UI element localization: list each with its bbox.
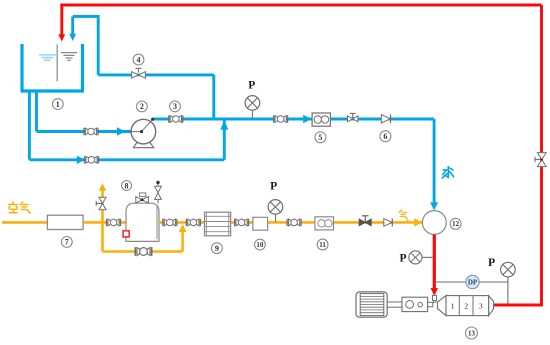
shaft [387, 302, 402, 307]
label: water text [442, 167, 453, 178]
valve V4 with T-stem [132, 68, 146, 78]
wire: branch down to bypass [101, 222, 104, 251]
arrow: up into main line [220, 121, 228, 130]
valve after component 9 [235, 219, 249, 226]
tank T1 [21, 44, 85, 91]
label 2 [137, 101, 148, 112]
separator vessel 13 [438, 296, 494, 316]
wire: air run to vessel [83, 221, 126, 224]
svg-text:9: 9 [215, 244, 219, 253]
label 6 [380, 131, 391, 142]
globe valve with stem on main line [348, 113, 358, 121]
wire: bypass top horizontal [73, 15, 99, 18]
check valve V6 [381, 114, 390, 123]
svg-text:13: 13 [468, 329, 476, 337]
wire: red mixer outlet drop [433, 234, 436, 289]
component 10 [253, 217, 268, 230]
svg-text:3: 3 [479, 302, 483, 311]
wire: pump suction horizontal [37, 130, 132, 133]
wire: pump suction vertical from tank [35, 90, 38, 132]
pressure gauge PI-1 [245, 79, 260, 118]
label 12 [450, 218, 461, 229]
valve at vessel inlet [107, 219, 121, 226]
label 9 [212, 243, 223, 254]
flow meter FM11 [315, 217, 334, 230]
arrow: blue into tank [69, 34, 76, 41]
tank divider [56, 45, 58, 82]
wire: vessel outlet run [159, 221, 422, 224]
coupling housing [402, 297, 428, 311]
label 8 [122, 181, 132, 191]
label 10 [255, 239, 266, 250]
valve before flow meter 11 [287, 219, 301, 226]
arrow: main line flow [303, 115, 311, 124]
pressure gauge PI-2 [268, 180, 283, 221]
label 4 [133, 54, 144, 65]
valve on main line [274, 115, 288, 122]
water level symbol left [39, 55, 56, 60]
valve at vessel outlet [163, 219, 177, 226]
svg-text:P: P [488, 257, 495, 269]
wire: branch down to pump discharge line [212, 75, 215, 119]
svg-text:6: 6 [383, 132, 387, 141]
valve on bypass [135, 247, 152, 256]
arrow: blue into mixer [430, 202, 438, 210]
wire: main discharge line [153, 118, 434, 121]
inlet fitting [433, 295, 437, 302]
label 5 [315, 132, 326, 143]
valve after junction [186, 219, 200, 226]
arrow: red into tank [58, 34, 65, 41]
sensor square on vessel [123, 231, 129, 237]
globe valve dark on air line [359, 216, 371, 226]
valve on pump suction [84, 128, 98, 135]
svg-text:1: 1 [56, 100, 60, 109]
pump P2 [131, 118, 156, 148]
pressure gauge PI-4 [488, 257, 515, 303]
svg-text:11: 11 [319, 241, 326, 249]
label 7 [61, 237, 72, 248]
relief valve on vessel top [155, 181, 162, 204]
wire: main line downcomer to mixer [433, 119, 436, 205]
valve V3 [169, 115, 183, 122]
pressure regulator on vessel top [136, 193, 149, 203]
label: gas text (qi) [399, 210, 408, 221]
valve on red downcomer [535, 153, 546, 167]
component 9 (laminar element) [205, 212, 231, 236]
wire: tank drain vertical [28, 90, 31, 160]
valve on drain run [85, 156, 99, 163]
water level symbol right [61, 53, 77, 61]
svg-text:1: 1 [451, 302, 455, 311]
wire: valve 4 branch horizontal [98, 73, 214, 76]
wire: air inlet run [2, 221, 48, 224]
wire: tank drain horizontal run [29, 158, 224, 161]
arrow: bypass up into line [179, 224, 187, 232]
arrow: on drain run [77, 156, 85, 164]
wire: drain riser joining main [223, 119, 226, 160]
DP transmitter [466, 275, 479, 288]
svg-text:DP: DP [468, 278, 478, 286]
svg-text:5: 5 [318, 133, 322, 142]
wire: DP impulse line [434, 281, 508, 283]
svg-text:2: 2 [140, 102, 144, 111]
svg-text:10: 10 [256, 241, 264, 249]
check valve on air line [384, 218, 393, 226]
wire: red right downcomer [540, 5, 543, 305]
pressure gauge PI-3 [399, 251, 432, 264]
component 7 (filter) [47, 215, 83, 229]
stub shaft [428, 302, 433, 306]
svg-text:12: 12 [452, 220, 460, 228]
wire: bypass vertical to valve 4 line [97, 15, 100, 75]
wire: blue drop into tank [71, 16, 74, 35]
wire: vent riser [101, 190, 104, 223]
vent valve with handle [96, 197, 106, 209]
svg-text:3: 3 [173, 102, 177, 111]
arrow: into pump [117, 127, 125, 135]
svg-text:P: P [399, 252, 406, 264]
label 3 [170, 101, 181, 112]
svg-text:2: 2 [464, 302, 468, 311]
label 11 [317, 239, 328, 250]
svg-text:4: 4 [137, 55, 141, 64]
label: air text (kong qi) [9, 202, 31, 213]
wire: bypass run [103, 250, 183, 253]
wire: red drop into tank [60, 4, 63, 36]
motor [356, 292, 387, 317]
wire: red bottom run from separator outlet [493, 303, 543, 306]
arrow: vent up [99, 183, 107, 191]
vessel 8 (buffer tank) [126, 203, 159, 241]
svg-text:P: P [270, 180, 277, 192]
wire: bypass riser [181, 226, 184, 252]
wire: red top header [60, 4, 541, 7]
arrow: air into mixer [414, 218, 422, 226]
label 13 [466, 327, 478, 339]
arrow: red into separator inlet [431, 288, 438, 296]
flow meter FM5 [312, 113, 330, 126]
label 1 [52, 99, 63, 110]
mixer M12 [422, 211, 446, 235]
svg-text:8: 8 [125, 181, 129, 190]
svg-text:7: 7 [65, 238, 69, 247]
svg-text:P: P [248, 79, 255, 91]
